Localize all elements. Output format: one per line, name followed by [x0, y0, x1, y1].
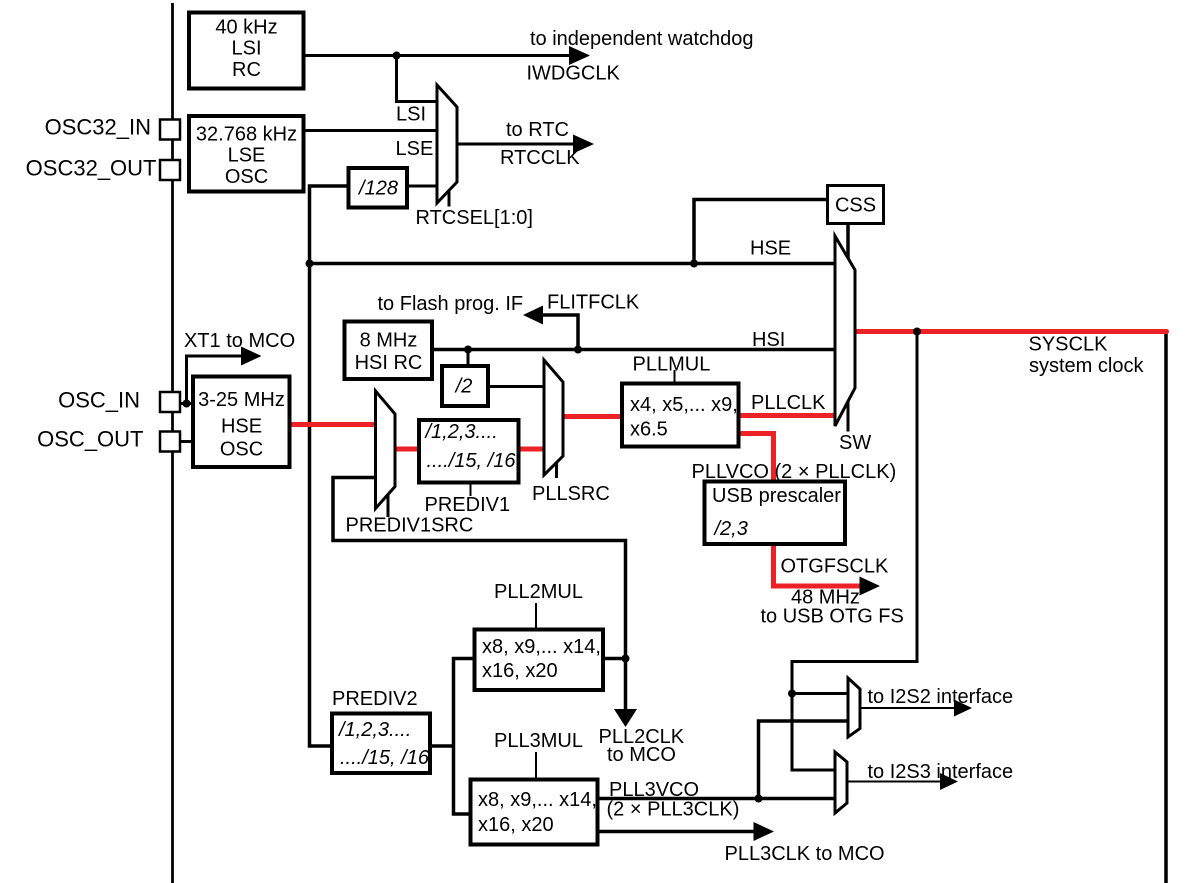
mux I2S2 — [848, 678, 860, 737]
svg-text:OSC_OUT: OSC_OUT — [37, 427, 143, 452]
box PREDIV2 divider — [332, 714, 430, 774]
arrowhead OTGFSCLK — [860, 577, 881, 596]
svg-text:/2: /2 — [454, 376, 473, 398]
wire PLL3VCO to I2S3 mux — [599, 797, 835, 801]
wire RTCCLK output to RTC — [457, 143, 576, 146]
wire HSI horizontal to SW mux — [433, 348, 836, 352]
node PLL2CLK junction — [622, 655, 630, 663]
svg-text:USB prescaler: USB prescaler — [712, 485, 841, 507]
svg-text:to USB OTG FS: to USB OTG FS — [761, 606, 904, 628]
svg-text:LSI: LSI — [396, 104, 426, 126]
mux I2S3 — [835, 752, 847, 813]
wire PREDIV2 output stub — [430, 744, 454, 748]
wire LSI output to IWDGCLK arrow — [304, 54, 573, 57]
svg-text:/1,2,3....: /1,2,3.... — [337, 719, 411, 741]
svg-text:x6.5: x6.5 — [630, 419, 668, 441]
svg-text:XT1 to MCO: XT1 to MCO — [184, 330, 295, 352]
arrowhead RTCCLK — [573, 135, 594, 154]
svg-text:x8, x9,... x14,: x8, x9,... x14, — [478, 789, 597, 811]
wire OSC_IN pin to HSE OSC — [181, 402, 194, 405]
svg-text:HSI: HSI — [752, 329, 785, 351]
wire /128 output to RTCSEL mux — [408, 185, 437, 188]
svg-text:SW: SW — [839, 432, 871, 454]
svg-text:PREDIV2: PREDIV2 — [332, 688, 418, 710]
mux SW — [835, 236, 855, 426]
svg-text:to I2S3 interface: to I2S3 interface — [868, 761, 1014, 783]
wire CSS to HSE line — [694, 200, 827, 264]
svg-text:to RTC: to RTC — [506, 119, 569, 141]
wire CSS to SW mux top — [846, 224, 850, 258]
box PLL2MUL multiplier — [475, 630, 604, 691]
box /2 divider — [442, 366, 488, 406]
svg-text:x8, x9,... x14,: x8, x9,... x14, — [482, 636, 601, 658]
wire OSC_OUT pin to HSE OSC — [181, 440, 194, 443]
wire I2S3 output — [847, 781, 942, 783]
arrowhead PLL2CLK to MCO down — [614, 709, 637, 727]
box LSE oscillator — [189, 116, 304, 192]
svg-text:to MCO: to MCO — [607, 744, 676, 766]
wire FLITFCLK to Flash — [540, 315, 578, 350]
box PLLMUL multiplier — [622, 384, 739, 447]
wire PLL3CLK to MCO — [599, 830, 756, 834]
chip boundary line — [171, 3, 174, 883]
wire PREDIV1 label connector — [470, 483, 472, 496]
wire RTCSEL select stub — [448, 189, 451, 207]
wire PLL2MUL output — [604, 657, 626, 661]
mux PREDIV1SRC — [376, 391, 396, 509]
svg-text:PLL3CLK to MCO: PLL3CLK to MCO — [725, 843, 885, 865]
node I2S2 SYSCLK junction — [788, 690, 796, 698]
wire I2S2 output — [860, 707, 956, 709]
svg-text:LSE: LSE — [396, 138, 434, 160]
wire HSE horizontal to SW mux — [310, 262, 836, 266]
wire PREDIV1SRC select stub — [387, 492, 390, 517]
svg-text:IWDGCLK: IWDGCLK — [527, 63, 621, 85]
svg-text:OSC: OSC — [220, 439, 263, 461]
wire LSI to RTCSEL mux — [397, 56, 438, 102]
node SYSCLK junction — [913, 328, 921, 336]
svg-text:PREDIV1SRC: PREDIV1SRC — [346, 515, 474, 537]
box PREDIV1 divider — [419, 420, 519, 483]
svg-text:PREDIV1: PREDIV1 — [425, 494, 511, 516]
wire right border vertical below SYSCLK — [1164, 332, 1168, 883]
svg-text:PLLMUL: PLLMUL — [633, 354, 711, 376]
svg-text:HSI RC: HSI RC — [355, 352, 423, 374]
node PLL3VCO junction — [755, 795, 763, 803]
box HSE oscillator — [193, 377, 290, 468]
svg-text:PLLSRC: PLLSRC — [532, 483, 610, 505]
red wire PLLCLK to SW mux — [740, 413, 833, 418]
box PLL3MUL multiplier — [471, 780, 598, 845]
wire PLL2CLK feedback to PREDIV1SRC mux — [333, 478, 626, 711]
svg-text:LSE: LSE — [228, 145, 266, 167]
arrowhead PLL3CLK to MCO — [754, 822, 775, 841]
red wire OTGFSCLK — [774, 546, 862, 586]
svg-text:40 kHz: 40 kHz — [215, 17, 277, 39]
red wire PLLSRC to PLLMUL — [564, 414, 620, 419]
svg-text:OSC32_OUT: OSC32_OUT — [26, 156, 157, 181]
node HSI junction to /2 — [464, 346, 472, 354]
wire SYSCLK branch to I2S muxes — [792, 332, 917, 771]
svg-text:x16, x20: x16, x20 — [478, 814, 554, 836]
red wire PLLVCO to USB prescaler — [740, 434, 774, 481]
pin OSC_OUT — [160, 432, 180, 452]
svg-text:PLLCLK: PLLCLK — [751, 392, 826, 414]
arrowhead FLITFCLK left — [523, 306, 543, 325]
svg-text:/2,3: /2,3 — [713, 518, 748, 540]
svg-text:(2 × PLL3CLK): (2 × PLL3CLK) — [607, 799, 740, 821]
box /128 divider — [349, 168, 408, 208]
red wire SYSCLK — [856, 329, 1167, 334]
svg-text:RC: RC — [232, 59, 261, 81]
svg-text:OSC_IN: OSC_IN — [58, 388, 140, 413]
svg-text:/1,2,3....: /1,2,3.... — [424, 421, 498, 443]
svg-text:LSI: LSI — [231, 38, 261, 60]
svg-text:FLITFCLK: FLITFCLK — [547, 292, 640, 314]
svg-text:OSC: OSC — [225, 166, 268, 188]
svg-text:..../15, /16: ..../15, /16 — [427, 450, 517, 472]
svg-text:OTGFSCLK: OTGFSCLK — [781, 556, 889, 578]
svg-text:3-25 MHz: 3-25 MHz — [198, 389, 285, 411]
arrowhead to I2S3 interface — [940, 773, 958, 790]
svg-text:PLLVCO (2 × PLLCLK): PLLVCO (2 × PLLCLK) — [692, 461, 897, 483]
node LSI junction — [393, 52, 401, 60]
wire HSE vertical trunk to /128 and PREDIV2 — [310, 186, 349, 746]
arrowhead IWDGCLK — [569, 46, 590, 65]
wire LSE output to RTCSEL mux — [304, 129, 438, 132]
node HSE junction to CSS — [690, 260, 698, 268]
pin OSC32_IN — [160, 120, 180, 140]
svg-text:RTCSEL[1:0]: RTCSEL[1:0] — [416, 207, 533, 229]
node OSC_IN junction — [183, 400, 191, 408]
svg-text:PLL3MUL: PLL3MUL — [494, 730, 583, 752]
pin OSC32_OUT — [160, 160, 180, 180]
wire HSI tap to /2 divider — [467, 350, 470, 366]
svg-text:to independent watchdog: to independent watchdog — [530, 28, 754, 50]
node HSI junction to FLITFCLK — [574, 346, 582, 354]
pin OSC_IN — [160, 392, 180, 412]
box LSI RC oscillator — [189, 13, 304, 89]
svg-text:to I2S2 interface: to I2S2 interface — [868, 686, 1014, 708]
svg-text:PLL2MUL: PLL2MUL — [494, 581, 583, 603]
wire PLL3MUL label connector — [535, 752, 537, 779]
wire SYSCLK to I2S2 mux — [792, 692, 848, 695]
box CSS — [828, 186, 884, 224]
box USB prescaler — [705, 482, 846, 545]
red wire PREDIV1SRC to PREDIV1 — [396, 447, 418, 452]
svg-text:HSE: HSE — [221, 416, 262, 438]
svg-text:x4, x5,... x9,: x4, x5,... x9, — [630, 394, 738, 416]
wire PLL3VCO to I2S2 mux — [759, 721, 849, 799]
svg-text:CSS: CSS — [835, 195, 876, 217]
mux RTCSEL — [437, 85, 457, 203]
arrowhead to I2S2 interface — [954, 700, 972, 717]
wire PLLSRC select stub — [555, 461, 558, 478]
svg-text:RTCCLK: RTCCLK — [500, 147, 580, 169]
node HSE junction at trunk — [306, 260, 314, 268]
wire PLL2MUL label connector — [535, 603, 537, 629]
svg-text:..../15, /16: ..../15, /16 — [340, 747, 430, 769]
mux PLLSRC — [544, 360, 563, 475]
svg-text:32.768 kHz: 32.768 kHz — [196, 124, 297, 146]
wire /2 output to PLLSRC mux — [489, 385, 545, 388]
arrowhead XT1 to MCO — [241, 347, 262, 366]
svg-text:/128: /128 — [357, 178, 398, 200]
svg-text:OSC32_IN: OSC32_IN — [45, 115, 151, 140]
svg-text:x16, x20: x16, x20 — [482, 660, 558, 682]
svg-text:8 MHz: 8 MHz — [360, 330, 418, 352]
wire SW select stub — [847, 401, 850, 432]
box HSI RC oscillator — [345, 322, 433, 380]
svg-text:to Flash prog. IF: to Flash prog. IF — [378, 293, 524, 315]
wire PREDIV2 output to PLL2MUL and PLL3MUL — [454, 659, 475, 815]
red wire HSE OSC to PREDIV1SRC mux — [291, 422, 374, 427]
svg-text:SYSCLK: SYSCLK — [1029, 334, 1109, 356]
red wire PREDIV1 to PLLSRC mux — [520, 447, 543, 452]
wire XT1 to MCO — [187, 356, 245, 404]
svg-text:HSE: HSE — [750, 238, 791, 260]
svg-text:system clock: system clock — [1029, 355, 1144, 377]
wire PLLMUL label connector — [674, 370, 676, 383]
